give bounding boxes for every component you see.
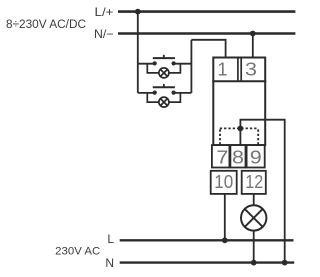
terminal box 7 bbox=[212, 145, 230, 167]
lamp H1 in push button S1 bbox=[159, 68, 169, 78]
svg-text:230V AC: 230V AC bbox=[55, 246, 100, 258]
push button S2 bridge bar bbox=[153, 86, 175, 88]
wire push button S2 row bbox=[138, 92, 192, 94]
terminal divider between 1 and 3 bbox=[237, 58, 239, 82]
svg-text:L: L bbox=[107, 232, 114, 246]
node junction terminal 8 wire on N line bbox=[282, 260, 288, 266]
wire L mains line bbox=[120, 239, 294, 241]
wire terminal 12 to lamp bbox=[253, 194, 255, 205]
push button S2 contacts bbox=[153, 91, 176, 95]
push button S1 contacts bbox=[153, 61, 176, 65]
wire left vertical from L/+ to push buttons bbox=[137, 12, 139, 93]
svg-text:L/+: L/+ bbox=[95, 5, 114, 19]
push button S2 actuator bbox=[163, 84, 165, 87]
svg-text:N: N bbox=[105, 256, 114, 270]
node junction lamp on N line bbox=[251, 260, 257, 266]
wire push button S1 row bbox=[138, 63, 192, 65]
terminal box 10 bbox=[211, 171, 237, 194]
svg-text:12: 12 bbox=[245, 171, 263, 192]
svg-text:N/−: N/− bbox=[94, 27, 114, 41]
wire right vertical joining buttons bbox=[190, 40, 192, 93]
lamp H2 in push button S2 bbox=[159, 97, 169, 107]
node junction on L line bbox=[222, 237, 228, 243]
terminal box 8 bbox=[230, 145, 245, 167]
terminal box 9 bbox=[247, 145, 265, 167]
wire lamp branch S2 bbox=[147, 93, 180, 102]
svg-text:7: 7 bbox=[216, 147, 228, 168]
node junction on contact linkage bbox=[238, 125, 244, 131]
wire L/+ supply line bbox=[118, 10, 295, 13]
svg-text:3: 3 bbox=[245, 59, 257, 80]
node junction on N/− bbox=[250, 31, 256, 37]
terminal box 12 bbox=[242, 171, 266, 194]
relay module U1 body bbox=[213, 58, 265, 146]
push button S1 actuator bbox=[163, 55, 165, 58]
wire from N/− to terminal 3 bbox=[252, 34, 254, 59]
terminal row 1 3 bottom edge bbox=[212, 80, 266, 82]
svg-text:9: 9 bbox=[250, 147, 262, 168]
wire N/− supply line bbox=[118, 32, 295, 35]
svg-text:8÷230V AC/DC: 8÷230V AC/DC bbox=[6, 19, 86, 31]
wire N mains line bbox=[120, 261, 295, 263]
relay contact dashed linkage bbox=[220, 128, 259, 144]
svg-text:10: 10 bbox=[214, 171, 233, 192]
lamp E1 bbox=[241, 205, 266, 230]
wire from buttons to terminal 1 bbox=[191, 40, 225, 58]
wire lamp branch S1 bbox=[147, 64, 180, 73]
svg-text:1: 1 bbox=[217, 59, 227, 80]
wire terminal 8 to N line bbox=[240, 120, 284, 263]
wire lamp to N line bbox=[253, 231, 255, 263]
push button S1 bridge bar bbox=[153, 57, 175, 59]
node junction on L/+ bbox=[135, 9, 141, 15]
svg-text:8: 8 bbox=[232, 147, 244, 168]
wire terminal 10 to L line bbox=[224, 194, 226, 240]
